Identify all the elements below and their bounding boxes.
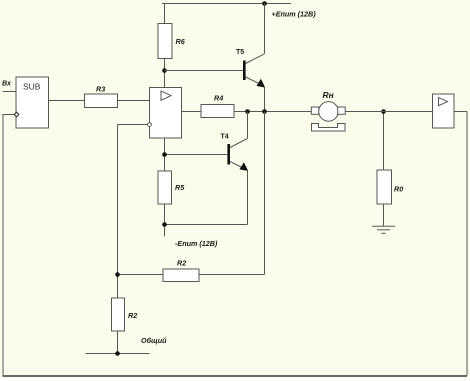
wire R6 bottom to op-amp top bbox=[164, 59, 166, 88]
svg-text:SUB: SUB bbox=[23, 82, 41, 92]
resistor R2 vertical bbox=[112, 298, 125, 331]
wire R5 bottom to -Epit stub bbox=[164, 204, 166, 237]
svg-text:Вх: Вх bbox=[2, 81, 12, 88]
block SUB bbox=[3, 77, 49, 128]
transistor T5 bbox=[243, 54, 265, 88]
wire R2 to rail branch bbox=[199, 112, 265, 275]
svg-text:R6: R6 bbox=[176, 37, 186, 46]
svg-text:T4: T4 bbox=[221, 134, 229, 141]
node junction R6 / T5 base bbox=[162, 68, 167, 73]
wire SUB output to R3 bbox=[49, 100, 85, 102]
op-amp U1 bbox=[148, 88, 182, 139]
wire op-amp bottom to R5 bbox=[164, 138, 166, 171]
svg-text:-Eпит (12В): -Eпит (12В) bbox=[175, 239, 218, 248]
wire +Epit top rail bbox=[162, 3, 291, 5]
svg-text:R0: R0 bbox=[394, 185, 403, 194]
resistor R2 horizontal bbox=[163, 269, 199, 282]
svg-text:R5: R5 bbox=[175, 183, 185, 192]
svg-text:R2: R2 bbox=[128, 311, 137, 320]
wire feedback loop bbox=[3, 112, 468, 377]
wire T4 base bbox=[165, 154, 228, 156]
wire R0 to ground bbox=[383, 204, 385, 226]
svg-text:R4: R4 bbox=[214, 94, 223, 103]
resistor R6 bbox=[158, 24, 172, 59]
node junction ground bbox=[115, 351, 120, 356]
wire R4 to motor rail bbox=[234, 111, 311, 113]
node junction rail / R0 bbox=[381, 109, 386, 114]
wire R3 to op-amp input bbox=[118, 100, 150, 102]
svg-text:T5: T5 bbox=[236, 49, 244, 56]
ground common rail bbox=[86, 353, 150, 355]
wire op-amp output bbox=[182, 111, 202, 113]
wire T5 base bbox=[165, 70, 244, 72]
resistor R0 bbox=[377, 170, 392, 204]
resistor R4 bbox=[201, 105, 234, 118]
svg-text:R2: R2 bbox=[177, 259, 186, 268]
node junction feedback / R2 bbox=[115, 272, 120, 277]
wire rail to R6 top bbox=[164, 4, 166, 24]
resistor R5 bbox=[158, 171, 172, 204]
wire motor to amp bbox=[345, 111, 432, 113]
node junction T5 emitter / R2 branch bbox=[262, 109, 267, 114]
transistor T4 bbox=[165, 112, 249, 225]
svg-text:Rн: Rн bbox=[323, 90, 334, 100]
svg-text:Общий: Общий bbox=[141, 336, 167, 345]
wire feedback to R2 bbox=[118, 274, 164, 276]
node junction R4 / T4 collector bbox=[245, 109, 250, 114]
resistor R3 bbox=[85, 94, 118, 108]
motor Rn bbox=[311, 102, 345, 131]
amplifier U2 bbox=[433, 94, 455, 128]
svg-text:+Eпит (12В): +Eпит (12В) bbox=[272, 10, 317, 19]
ground earth symbol bbox=[372, 226, 395, 233]
svg-text:R3: R3 bbox=[96, 85, 105, 94]
wire T5 emitter to rail bbox=[264, 87, 266, 112]
wire T5 collector vertical bbox=[264, 4, 266, 54]
wire rail to R0 bbox=[383, 112, 385, 171]
node junction R5 / T4 emitter / -Epit bbox=[162, 222, 167, 227]
wire inverting input feedback bbox=[118, 125, 148, 354]
node junction top rail / T5 collector bbox=[262, 1, 267, 6]
node junction op-amp bottom / T4 base bbox=[162, 152, 167, 157]
